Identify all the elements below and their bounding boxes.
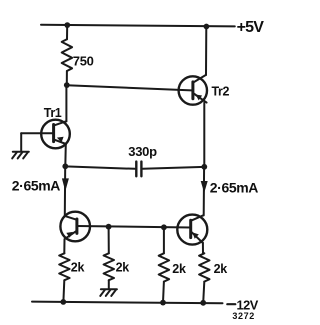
svg-text:Tr2: Tr2 xyxy=(212,85,230,99)
svg-text:2k: 2k xyxy=(71,261,85,275)
svg-text:2k: 2k xyxy=(116,261,130,275)
svg-text:2·65mA: 2·65mA xyxy=(210,180,258,196)
svg-text:2·65mA: 2·65mA xyxy=(12,177,60,193)
svg-text:2k: 2k xyxy=(214,262,228,276)
svg-text:Tr1: Tr1 xyxy=(44,106,62,120)
svg-text:+5V: +5V xyxy=(237,19,265,36)
svg-text:330p: 330p xyxy=(128,144,157,159)
svg-text:3272: 3272 xyxy=(232,311,254,321)
svg-text:2k: 2k xyxy=(172,262,186,276)
svg-text:750: 750 xyxy=(73,54,94,69)
